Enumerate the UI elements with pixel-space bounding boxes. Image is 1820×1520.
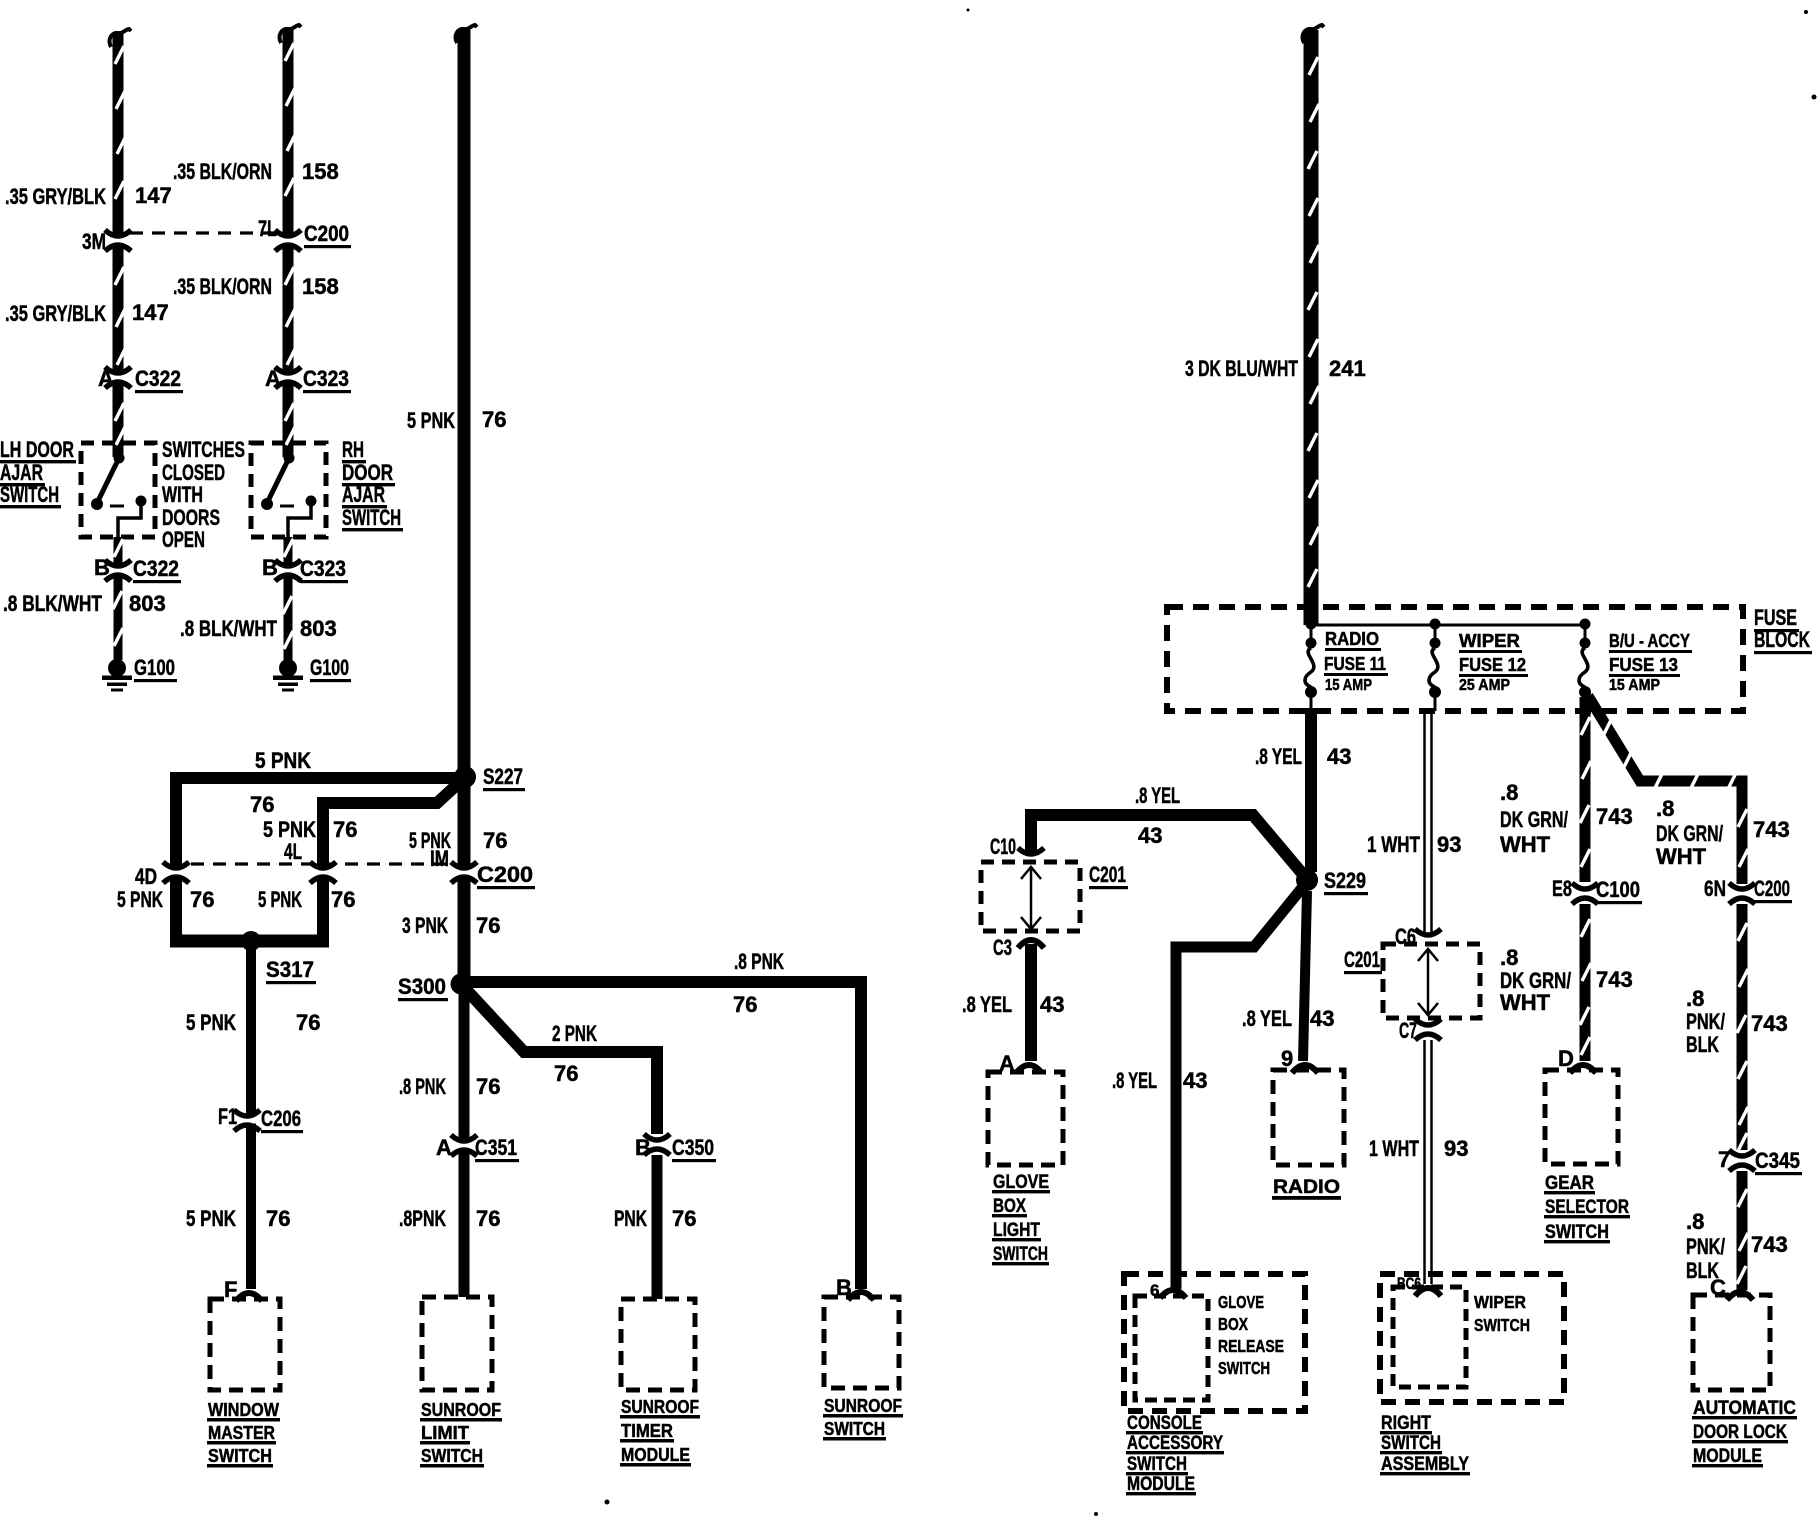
svg-text:76: 76 (483, 828, 507, 853)
svg-text:SWITCH: SWITCH (824, 1418, 885, 1439)
svg-text:FUSE 13: FUSE 13 (1609, 655, 1678, 675)
svg-text:DOOR LOCK: DOOR LOCK (1693, 1422, 1787, 1443)
wire 2 PNK 76 S300 to sunroof timer module (461, 984, 657, 1134)
svg-text:BC6: BC6 (1397, 1274, 1421, 1293)
svg-text:SWITCH: SWITCH (208, 1445, 272, 1466)
svg-text:A: A (999, 1051, 1015, 1076)
ground G100 left (102, 659, 132, 692)
svg-text:FUSE 11: FUSE 11 (1324, 654, 1386, 674)
svg-text:76: 76 (476, 913, 500, 938)
connector F1 C206 (232, 1110, 262, 1131)
glove box release switch inner box (1135, 1296, 1208, 1400)
svg-text:.8 YEL: .8 YEL (1135, 783, 1180, 808)
wire 5 PNK 76 S317 to window master switch (246, 941, 256, 1289)
svg-text:76: 76 (476, 1206, 500, 1231)
svg-text:BOX: BOX (993, 1196, 1026, 1217)
svg-text:C200: C200 (1754, 876, 1790, 901)
svg-text:743: 743 (1751, 1011, 1788, 1036)
svg-text:.8 YEL: .8 YEL (1242, 1006, 1292, 1031)
svg-text:.8 PNK: .8 PNK (734, 949, 784, 974)
svg-text:RADIO: RADIO (1325, 629, 1379, 649)
connector 6N C200 (1727, 883, 1757, 904)
svg-text:C: C (1710, 1275, 1726, 1300)
LH switch internal wire to case bottom (118, 505, 141, 537)
svg-text:G100: G100 (134, 655, 175, 680)
svg-text:SWITCH: SWITCH (993, 1244, 1048, 1265)
svg-text:IM: IM (430, 846, 449, 871)
svg-text:15 AMP: 15 AMP (1609, 677, 1660, 694)
svg-text:158: 158 (302, 159, 339, 184)
svg-text:WIPER: WIPER (1474, 1292, 1526, 1312)
svg-text:.8: .8 (1500, 780, 1518, 805)
svg-text:SWITCH: SWITCH (421, 1445, 483, 1466)
svg-text:DK GRN/: DK GRN/ (1656, 821, 1723, 846)
underline C351 (475, 1159, 519, 1162)
wire .8 BLK/WHT 803 (LH switch to ground) (113, 537, 123, 660)
underline C322 A (135, 390, 183, 393)
svg-text:C322: C322 (135, 366, 181, 391)
svg-text:WINDOW: WINDOW (208, 1399, 279, 1420)
svg-text:SWITCH: SWITCH (0, 482, 59, 507)
entry bell A glove box light switch (1016, 1065, 1042, 1073)
svg-text:GLOVE: GLOVE (993, 1172, 1049, 1193)
underline G100 right (310, 679, 351, 682)
svg-text:SWITCH: SWITCH (1127, 1454, 1187, 1475)
svg-text:76: 76 (250, 792, 274, 817)
svg-text:SWITCHES: SWITCHES (162, 437, 245, 462)
svg-text:.35 GRY/BLK: .35 GRY/BLK (5, 301, 106, 326)
svg-text:C200: C200 (477, 862, 533, 887)
wire .8 YEL 43 S229 to radio (1303, 891, 1307, 1061)
svg-text:743: 743 (1753, 817, 1790, 842)
svg-text:AJAR: AJAR (342, 482, 385, 507)
sunroof limit switch box (422, 1297, 492, 1390)
svg-text:743: 743 (1596, 804, 1633, 829)
svg-text:C322: C322 (133, 556, 179, 581)
svg-text:AUTOMATIC: AUTOMATIC (1693, 1398, 1796, 1419)
svg-text:BOX: BOX (1218, 1314, 1248, 1334)
wiper switch inner box (1393, 1287, 1466, 1387)
wire 5 PNK bottom loop horizontal (170, 935, 329, 948)
wire .8 PNK 76 S300 to sunroof switch (461, 982, 861, 1289)
svg-text:WHT: WHT (1500, 832, 1551, 857)
svg-text:SWITCH: SWITCH (1218, 1358, 1270, 1378)
window master switch box (210, 1299, 280, 1390)
sunroof timer module box (621, 1299, 695, 1390)
svg-text:6N: 6N (1704, 876, 1726, 901)
wire .8 BLK/WHT 803 (RH switch to ground) (283, 537, 293, 660)
svg-text:93: 93 (1437, 832, 1461, 857)
svg-text:76: 76 (190, 887, 214, 912)
wire PNK 76 C350 to timer module (652, 1155, 663, 1299)
wire 3 DK BLU/WHT 241 feed (1308, 30, 1319, 625)
svg-text:.8: .8 (1500, 945, 1518, 970)
C201 internal line with arrows (1021, 867, 1041, 929)
svg-text:C6: C6 (1395, 924, 1416, 949)
svg-text:A: A (98, 366, 114, 391)
fuse bus line (1311, 624, 1585, 627)
underline G100 left (134, 679, 177, 682)
connector C201 box (glove box light) (981, 862, 1080, 931)
RH switch right contact (306, 496, 317, 507)
connector E8 C100 (1570, 883, 1600, 904)
wire .8 DK GRN/WHT 743 fuse 13 to E8 (1580, 697, 1591, 882)
svg-text:3M: 3M (82, 229, 106, 254)
svg-text:.8: .8 (1686, 1209, 1704, 1234)
svg-text:S317: S317 (266, 957, 314, 982)
underline C200 6N (1754, 900, 1792, 903)
svg-text:9: 9 (1281, 1046, 1293, 1071)
svg-text:GLOVE: GLOVE (1218, 1292, 1264, 1312)
dashed mate line between 3M and 7L (130, 231, 276, 234)
svg-text:743: 743 (1751, 1232, 1788, 1257)
svg-text:B: B (262, 555, 278, 580)
svg-text:WHT: WHT (1656, 844, 1707, 869)
svg-text:B: B (94, 555, 110, 580)
svg-text:B/U - ACCY: B/U - ACCY (1609, 631, 1690, 651)
svg-text:5 PNK: 5 PNK (258, 887, 302, 912)
svg-text:RH: RH (342, 437, 364, 462)
svg-text:93: 93 (1444, 1136, 1468, 1161)
svg-text:PNK/: PNK/ (1686, 1009, 1725, 1034)
connector B C323 (273, 560, 303, 581)
svg-text:C201: C201 (1089, 862, 1126, 887)
svg-text:C323: C323 (303, 366, 349, 391)
entry bell 6 console module (1160, 1290, 1186, 1298)
entry bell D gear selector switch (1570, 1065, 1596, 1073)
svg-text:S229: S229 (1324, 868, 1366, 893)
svg-text:3 PNK: 3 PNK (402, 913, 448, 938)
svg-text:WIPER: WIPER (1459, 631, 1520, 651)
svg-text:C200: C200 (304, 221, 349, 246)
svg-text:SWITCH: SWITCH (342, 505, 401, 530)
svg-text:76: 76 (331, 887, 355, 912)
svg-text:CONSOLE: CONSOLE (1127, 1413, 1202, 1434)
RH door ajar switch box (251, 443, 326, 537)
console accessory switch module outer box (1124, 1274, 1305, 1411)
connector C7 (1413, 1019, 1443, 1040)
underline C200 top (304, 245, 351, 248)
underline C206 (261, 1130, 303, 1133)
connector C201 box (wiper) (1383, 944, 1480, 1018)
svg-text:5 PNK: 5 PNK (186, 1010, 236, 1035)
wire .8 DK GRN/WHT 743 E8 to gear selector switch (1580, 904, 1591, 1061)
LH door ajar switch box (81, 443, 155, 537)
underline S227 (483, 788, 525, 791)
svg-text:76: 76 (476, 1074, 500, 1099)
svg-text:76: 76 (482, 407, 506, 432)
svg-text:.35 BLK/ORN: .35 BLK/ORN (173, 159, 272, 184)
svg-text:76: 76 (266, 1206, 290, 1231)
radio box (1273, 1070, 1344, 1165)
underline S300 (398, 998, 448, 1001)
underline C350 (672, 1159, 716, 1162)
svg-text:76: 76 (333, 817, 357, 842)
LH switch pivot contact (91, 498, 103, 510)
svg-text:7L: 7L (258, 216, 277, 241)
svg-text:5 PNK: 5 PNK (117, 887, 163, 912)
stray scan specks (605, 9, 1817, 1517)
connector 4D C200 (161, 862, 191, 883)
wire .8 DK GRN/WHT 743 fuse 13 to 6N (1588, 696, 1748, 884)
svg-text:A: A (265, 366, 281, 391)
svg-text:147: 147 (132, 300, 169, 325)
svg-text:.8 YEL: .8 YEL (1255, 744, 1302, 769)
svg-text:PNK: PNK (614, 1206, 647, 1231)
underline C322 B (133, 580, 181, 583)
LH switch right contact (136, 496, 147, 507)
ground G100 right (273, 659, 303, 692)
C201 wiper internal line with arrows (1418, 949, 1438, 1015)
wire 1 WHT 93 upper double line (1425, 711, 1432, 933)
fuse B/U-ACCY FUSE 13 (1579, 619, 1591, 712)
svg-text:DK GRN/: DK GRN/ (1500, 807, 1568, 832)
svg-text:43: 43 (1183, 1068, 1207, 1093)
svg-text:4D: 4D (135, 864, 157, 889)
svg-text:SUNROOF: SUNROOF (421, 1399, 501, 1420)
svg-text:76: 76 (733, 992, 757, 1017)
svg-text:ACCESSORY: ACCESSORY (1127, 1433, 1223, 1454)
wire .8 PNK/BLK 743 6N to C345 (1737, 904, 1748, 1151)
svg-text:5 PNK: 5 PNK (255, 748, 311, 773)
RH switch contact top (284, 453, 295, 464)
svg-text:ASSEMBLY: ASSEMBLY (1381, 1454, 1469, 1475)
svg-text:.8: .8 (1686, 986, 1704, 1011)
fuse block box (1167, 607, 1743, 711)
wire .8 PNK/BLK 743 C345 to auto door lock module (1737, 1171, 1748, 1290)
wire 5 PNK loop left branch from S227 (176, 778, 465, 941)
underline S317 (266, 981, 316, 984)
connector A C351 (449, 1135, 479, 1156)
svg-text:MODULE: MODULE (1127, 1474, 1195, 1495)
connector B C350 (642, 1134, 672, 1155)
connector 3M of C200 (103, 230, 133, 251)
svg-text:C7: C7 (1399, 1018, 1417, 1043)
svg-text:76: 76 (296, 1010, 320, 1035)
svg-text:TIMER: TIMER (621, 1420, 673, 1441)
junction S317 (241, 931, 261, 951)
junction S229 (1296, 869, 1318, 891)
svg-text:.35 GRY/BLK: .35 GRY/BLK (5, 184, 106, 209)
underline C323 A (303, 390, 351, 393)
svg-text:SUNROOF: SUNROOF (824, 1395, 902, 1416)
svg-text:C350: C350 (672, 1135, 714, 1160)
svg-text:5 PNK: 5 PNK (186, 1206, 236, 1231)
svg-text:.8 YEL: .8 YEL (1112, 1068, 1157, 1093)
svg-text:158: 158 (302, 274, 339, 299)
RH switch pivot contact (261, 498, 273, 510)
connector C3 bell (1018, 940, 1044, 948)
svg-text:G100: G100 (310, 655, 349, 680)
junction S300 (451, 974, 472, 995)
LH switch contact top (114, 453, 125, 464)
svg-text:.8 BLK/WHT: .8 BLK/WHT (3, 591, 102, 616)
svg-text:743: 743 (1596, 967, 1633, 992)
svg-text:147: 147 (135, 183, 172, 208)
entry bell B sunroof switch (848, 1292, 874, 1300)
svg-text:43: 43 (1327, 744, 1351, 769)
wire .8 YEL 43 fuse 11 to S229 (1305, 708, 1317, 872)
sunroof switch box (824, 1297, 899, 1388)
gear selector switch box (1545, 1070, 1618, 1164)
RH switch linkage dash (280, 505, 294, 508)
svg-text:.8PNK: .8PNK (399, 1206, 446, 1231)
svg-text:C3: C3 (993, 935, 1012, 960)
svg-text:7: 7 (1718, 1147, 1730, 1172)
junction S227 (454, 766, 476, 788)
entry bell 9 radio (1292, 1065, 1318, 1073)
svg-text:.8 BLK/WHT: .8 BLK/WHT (180, 616, 277, 641)
svg-text:LIMIT: LIMIT (421, 1422, 470, 1443)
wire .8 PNK 76 to sunroof limit switch (459, 984, 470, 1297)
svg-text:WITH: WITH (162, 482, 203, 507)
wire .8 YEL 43 S229 to C10 (1025, 815, 1306, 878)
svg-text:.8 YEL: .8 YEL (962, 992, 1012, 1017)
svg-text:PNK/: PNK/ (1686, 1234, 1725, 1259)
svg-text:4L: 4L (284, 839, 302, 864)
wire .8 YEL 43 S229 to console accessory switch module (1176, 883, 1306, 1289)
svg-text:RELEASE: RELEASE (1218, 1336, 1284, 1356)
pigtail top of wire 158 (280, 25, 301, 43)
svg-text:76: 76 (554, 1061, 578, 1086)
entry bell F window master switch (236, 1293, 262, 1301)
underline C345 (1755, 1172, 1802, 1175)
svg-text:5 PNK: 5 PNK (407, 408, 455, 433)
svg-text:LIGHT: LIGHT (993, 1220, 1040, 1241)
svg-text:15 AMP: 15 AMP (1325, 677, 1372, 694)
svg-text:C201: C201 (1344, 947, 1380, 972)
underline C201 left (1089, 886, 1128, 889)
right switch assembly outer box (1380, 1274, 1564, 1402)
connector 4L C200 (308, 862, 338, 883)
connector A C322 (103, 367, 133, 388)
svg-text:OPEN: OPEN (162, 527, 205, 552)
svg-text:C323: C323 (300, 556, 346, 581)
wire 1 WHT 93 lower double line (1425, 1040, 1432, 1284)
svg-text:76: 76 (672, 1206, 696, 1231)
svg-text:SWITCH: SWITCH (1381, 1433, 1441, 1454)
svg-text:GEAR: GEAR (1545, 1173, 1594, 1194)
svg-text:.8 PNK: .8 PNK (399, 1074, 446, 1099)
RH switch internal wire to case bottom (288, 505, 311, 537)
svg-text:43: 43 (1138, 823, 1162, 848)
svg-text:E8: E8 (1552, 876, 1572, 901)
wire .8 YEL 43 C3 to glove box light switch (1025, 944, 1037, 1061)
underline C100 (1596, 901, 1642, 904)
svg-text:MODULE: MODULE (1693, 1446, 1762, 1467)
svg-text:RIGHT: RIGHT (1381, 1413, 1431, 1434)
svg-text:.8: .8 (1656, 796, 1674, 821)
svg-text:MASTER: MASTER (208, 1422, 275, 1443)
pigtail top of wire 76 (456, 25, 477, 43)
pigtail top of wire 147 (110, 29, 131, 47)
wire 5 PNK second branch from S227 (323, 781, 461, 941)
svg-text:RADIO: RADIO (1273, 1177, 1340, 1198)
underline S229 (1324, 892, 1368, 895)
svg-text:1 WHT: 1 WHT (1367, 832, 1420, 857)
underline C323 B (300, 580, 348, 583)
svg-text:2 PNK: 2 PNK (552, 1021, 597, 1046)
svg-text:SWITCH: SWITCH (1474, 1315, 1530, 1335)
svg-text:A: A (436, 1135, 452, 1160)
svg-text:.35 BLK/ORN: .35 BLK/ORN (173, 274, 272, 299)
svg-text:F1: F1 (218, 1104, 237, 1129)
underline C200 IM (477, 886, 535, 889)
automatic door lock module box (1693, 1295, 1770, 1390)
svg-text:MODULE: MODULE (621, 1444, 690, 1465)
connector 7L C200 (273, 230, 303, 251)
connector B C322 (103, 560, 133, 581)
connector C6 bell (1415, 929, 1441, 935)
svg-text:D: D (1558, 1046, 1574, 1071)
svg-text:25 AMP: 25 AMP (1459, 677, 1510, 694)
fuse WIPER FUSE 12 (1429, 619, 1441, 712)
svg-text:C10: C10 (990, 834, 1016, 859)
svg-text:C351: C351 (475, 1135, 517, 1160)
connector IM C200 (449, 862, 479, 883)
svg-text:LH DOOR: LH DOOR (0, 437, 74, 462)
svg-text:B: B (635, 1135, 651, 1160)
svg-text:241: 241 (1329, 356, 1366, 381)
wire .35 GRY/BLK 147 (upper run, circuit 147) (115, 33, 126, 457)
svg-text:BLK: BLK (1686, 1032, 1719, 1057)
svg-text:FUSE 12: FUSE 12 (1459, 655, 1526, 675)
svg-text:SUNROOF: SUNROOF (621, 1396, 699, 1417)
svg-text:C206: C206 (261, 1106, 301, 1131)
svg-text:C100: C100 (1596, 877, 1640, 902)
svg-text:BLOCK: BLOCK (1754, 627, 1810, 652)
svg-text:SELECTOR: SELECTOR (1545, 1197, 1629, 1218)
svg-text:F: F (224, 1277, 237, 1302)
svg-text:43: 43 (1040, 992, 1064, 1017)
entry bell BC6 right switch assembly (1415, 1288, 1441, 1296)
connector C10 bell (1018, 848, 1044, 854)
RH switch blade (268, 458, 289, 501)
dashed mate line 4D-4L-IM (191, 862, 451, 865)
entry bell C auto door lock module (1727, 1292, 1753, 1300)
wire .35 BLK/ORN 158 (upper run, circuit 158) (285, 30, 296, 457)
pigtail top of wire 241 (1303, 25, 1324, 43)
wire 5 PNK 76 main feed (458, 30, 471, 984)
connector A C323 (273, 367, 303, 388)
fuse RADIO FUSE 11 (1305, 619, 1317, 712)
svg-text:6: 6 (1150, 1281, 1159, 1300)
svg-text:SWITCH: SWITCH (1545, 1222, 1609, 1243)
svg-text:43: 43 (1310, 1006, 1334, 1031)
svg-text:3 DK BLU/WHT: 3 DK BLU/WHT (1185, 356, 1298, 381)
svg-text:B: B (836, 1275, 852, 1300)
connector 7 C345 (1727, 1150, 1757, 1171)
svg-text:C345: C345 (1755, 1148, 1800, 1173)
svg-text:803: 803 (300, 616, 337, 641)
LH switch blade (98, 458, 119, 501)
LH switch linkage dash (110, 505, 124, 508)
svg-text:WHT: WHT (1500, 990, 1551, 1015)
glove box light switch box (988, 1072, 1063, 1165)
svg-text:1 WHT: 1 WHT (1369, 1136, 1419, 1161)
svg-text:S227: S227 (483, 764, 523, 789)
svg-text:803: 803 (129, 591, 166, 616)
svg-text:S300: S300 (398, 974, 446, 999)
underline C201 right (1344, 971, 1382, 974)
